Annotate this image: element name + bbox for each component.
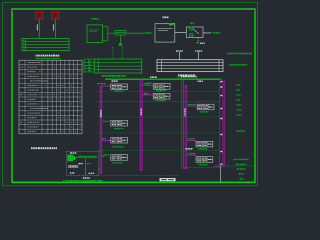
riser R3 floor label B2 [188, 104, 190, 105]
inner border frame [12, 9, 255, 182]
label under AL1 [114, 90, 116, 91]
highlighted drawing label [160, 178, 176, 181]
dashed drop from valve box [197, 38, 199, 44]
label wire S1 [37, 25, 38, 26]
riser R3 elbow floor B5 [187, 154, 196, 156]
floor line B1 [97, 91, 220, 93]
riser R4 ground wire [219, 80, 221, 168]
distribution box AL2 [111, 120, 128, 126]
riser R3 ground wire [180, 80, 182, 168]
legend drop wire [85, 158, 87, 175]
legend small box [69, 165, 78, 167]
caption busbar C [178, 74, 179, 76]
label under BL1 [156, 90, 157, 91]
riser R3 floor label B5 [188, 153, 189, 154]
distribution box CL3 [196, 157, 213, 163]
legend label bottom [70, 172, 72, 173]
feeder stubs into busbar C [179, 52, 181, 60]
riser R3 label [184, 109, 185, 111]
wire from S2 to terminal block [54, 19, 56, 38]
label under AL2 [114, 128, 116, 129]
changeover link [193, 29, 199, 33]
label cabinet [92, 18, 94, 20]
legend enclosure [66, 151, 99, 175]
title block divider [220, 166, 222, 182]
caption under legend [83, 177, 84, 179]
label under AL3 [113, 146, 115, 147]
riser R4 bottom elbow [215, 165, 224, 167]
riser R3 floor label B4 [188, 138, 189, 139]
label under BL2 [156, 100, 157, 101]
stub labels [176, 50, 178, 51]
riser R2 floor label b [144, 93, 146, 94]
wire from S1 to terminal block [38, 19, 40, 38]
equipment function table [19, 60, 82, 134]
label above CL2 [186, 148, 188, 149]
distribution box CL2 [196, 141, 213, 147]
floor line left section [97, 175, 180, 177]
riser R2 [139, 79, 141, 170]
riser R2 elbow floor 1b [142, 94, 153, 96]
distribution box AL3 [111, 137, 128, 143]
distribution box BL1 [153, 84, 170, 90]
smoke detector S2 [52, 12, 59, 19]
riser R1 [99, 86, 101, 174]
wire junction to right [126, 32, 146, 34]
riser R3 elbow floor B4 [187, 140, 196, 142]
legend caption top [70, 152, 72, 153]
label wire destination [146, 32, 148, 34]
riser R3 loop pair [184, 85, 186, 168]
wire cabinet to junction [103, 26, 108, 28]
distribution box AL4 [111, 155, 128, 161]
tank inlet arrow [169, 24, 175, 26]
label under AL4 [113, 162, 114, 163]
outer border frame [3, 3, 258, 186]
label above ground line 3 [181, 76, 182, 77]
legend list [237, 84, 238, 85]
accent line under top frame [12, 9, 255, 11]
label left BL1 [146, 83, 148, 84]
label out destination [213, 32, 215, 34]
floor line B5 [97, 149, 220, 151]
floor line B3 [97, 116, 220, 118]
label left AL4 [104, 154, 106, 155]
label above ground line 2 [150, 77, 152, 78]
note line 1 [227, 53, 228, 55]
feeder terminal strip [83, 59, 85, 73]
riser R3 line a [182, 79, 184, 168]
caption under table [31, 147, 33, 149]
smoke detector S1 [36, 12, 43, 19]
riser R2 elbow floor 1 [142, 84, 153, 86]
dashed feeders to busbar B [112, 47, 114, 59]
riser R3 elbow floor B2 [187, 105, 198, 107]
label left AL2 [103, 121, 104, 122]
legend tick right [102, 155, 104, 156]
title block text 5 [240, 178, 242, 179]
distribution box AL1 floor1 [111, 84, 128, 90]
floor line right section [185, 167, 220, 169]
junction label FDZ [115, 30, 126, 35]
title block text 4 [239, 173, 241, 174]
label wire S2 [53, 25, 54, 26]
riser R2 floor label a [144, 83, 146, 84]
label drop [200, 43, 201, 44]
check valve V2 [190, 33, 194, 37]
legend footer [237, 130, 239, 131]
note line 2 [229, 64, 231, 66]
title block text 2 [236, 164, 238, 165]
caption terminal wiring table [36, 55, 37, 57]
water tank T1 [155, 24, 175, 42]
check valve V1 [190, 27, 194, 31]
label tank [163, 16, 164, 18]
title block text 3 [237, 168, 239, 169]
riser R4 [222, 80, 224, 167]
label valve box [191, 23, 193, 25]
label under CL1 [200, 111, 201, 112]
distribution box BL2 [153, 93, 170, 99]
label near legend bottom right [89, 173, 91, 174]
legend label right [87, 163, 88, 164]
legend wire right [76, 157, 98, 159]
wire valves out [203, 32, 212, 34]
label under CL2 [198, 148, 199, 149]
riser R1 floor label [102, 138, 104, 139]
label left AL1 [97, 83, 99, 84]
green busbar panel B [94, 59, 141, 73]
drop wire to busbar [119, 35, 121, 43]
label above ground line 4 [198, 81, 199, 82]
floor line B4 [97, 132, 220, 134]
title block text 1 [234, 159, 236, 160]
legend module block [67, 155, 73, 162]
floor number labels [220, 81, 222, 82]
fire alarm control cabinet U1 [87, 25, 103, 43]
ground floor heavy line [105, 78, 221, 80]
note line with bullet [63, 180, 64, 181]
valve box with check valves [186, 27, 203, 38]
label above ground line 1 [112, 80, 114, 81]
label under CL3 [198, 164, 199, 165]
terminal block TB1 [22, 39, 69, 51]
riser R2 label [141, 109, 142, 110]
floor line B2 [97, 100, 220, 102]
distribution box CL1 [197, 104, 214, 110]
riser R1 top elbow [100, 85, 111, 87]
pipe tank to valve box [175, 31, 187, 33]
legend label left [79, 163, 81, 164]
riser R1 bottom tap [99, 168, 100, 170]
gray busbar panel C [157, 60, 223, 72]
caption busbar B [102, 75, 103, 77]
riser R1 elbow floor B4 [102, 139, 111, 141]
riser R1 label [100, 110, 101, 111]
